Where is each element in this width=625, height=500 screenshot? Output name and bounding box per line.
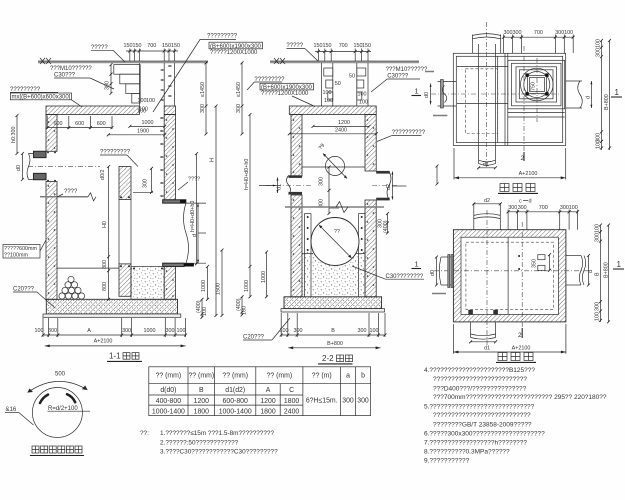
section cut 2 vertical dashed xyxy=(523,46,525,152)
svg-text:300: 300 xyxy=(357,398,369,405)
svg-text:?? (mm): ?? (mm) xyxy=(188,373,214,380)
bottom slab xyxy=(284,297,382,309)
300/400 dims right of channel xyxy=(387,214,389,234)
left wall upper xyxy=(46,115,57,152)
svg-text:300: 300 xyxy=(504,30,513,36)
left pipe xyxy=(441,256,453,258)
svg-text:d1(d2): d1(d2) xyxy=(225,387,245,394)
partition xyxy=(507,237,509,314)
svg-text:d0: d0 xyxy=(430,270,436,276)
svg-text:150: 150 xyxy=(124,43,133,49)
svg-text:≤1450: ≤1450 xyxy=(200,82,206,97)
ground line xyxy=(38,60,208,62)
svg-text:1000: 1000 xyxy=(144,328,156,334)
right pipe xyxy=(566,255,581,257)
right wall inner rebar ticks xyxy=(160,118,164,196)
svg-text:1.???????≤15m ???1.5-8m???????: 1.???????≤15m ???1.5-8m?????????? xyxy=(160,430,274,437)
svg-text:100: 100 xyxy=(324,98,333,104)
svg-text:??:: ??: xyxy=(140,430,149,437)
pipe dots xyxy=(47,152,49,154)
svg-text:(400): (400) xyxy=(383,220,389,233)
svg-text:100: 100 xyxy=(358,92,367,98)
svg-text:1200: 1200 xyxy=(260,398,275,405)
svg-text:6.?????300x300????????????????: 6.?????300x300???????????????????? xyxy=(424,430,545,437)
small cut mark between plans xyxy=(436,166,438,184)
svg-text:50: 50 xyxy=(349,74,355,80)
svg-text:B+800: B+800 xyxy=(604,94,610,110)
svg-text:4.??????????????????????B125??: 4.??????????????????????B125??? xyxy=(424,367,535,374)
svg-text:d1: d1 xyxy=(277,184,283,190)
left wall lower xyxy=(291,195,302,297)
svg-text:1: 1 xyxy=(415,87,419,96)
svg-text:150: 150 xyxy=(323,43,332,49)
right neck stub xyxy=(357,63,368,106)
svg-text:100: 100 xyxy=(35,328,44,334)
svg-text:100: 100 xyxy=(323,90,332,96)
H0 300 800 dim chain xyxy=(108,167,110,300)
svg-text:100: 100 xyxy=(359,100,368,106)
top pipe xyxy=(472,35,474,54)
svg-text:300: 300 xyxy=(595,233,601,242)
svg-text:???????????????????????????: ??????????????????????????? xyxy=(433,412,531,419)
d1 dim xyxy=(479,167,496,169)
svg-text:9.???????????: 9.??????????? xyxy=(424,458,470,465)
N0:300 dim xyxy=(16,116,18,154)
svg-text:?? (mm): ?? (mm) xyxy=(156,373,182,380)
drop chamber concrete fill xyxy=(131,267,164,300)
pebbles xyxy=(59,276,85,299)
svg-text:300: 300 xyxy=(236,104,242,113)
svg-text:d1: d1 xyxy=(484,346,490,352)
left dim chains of 2-2 xyxy=(241,63,243,134)
chamber dashed rect xyxy=(466,242,554,309)
title plan 1 xyxy=(498,184,538,194)
svg-text:300: 300 xyxy=(166,328,175,334)
rebar hooks xyxy=(40,395,48,403)
svg-text:50: 50 xyxy=(335,81,341,87)
svg-text:6?H≤15m.: 6?H≤15m. xyxy=(306,398,338,405)
left pipe xyxy=(29,153,47,155)
svg-text:5.????????????????????????????: 5.????????????????????????????? xyxy=(424,403,535,410)
svg-text:d0/2: d0/2 xyxy=(100,170,106,181)
svg-text:???M10??????: ???M10?????? xyxy=(386,67,428,73)
svg-text:300: 300 xyxy=(560,205,569,211)
svg-text:d2: d2 xyxy=(386,184,392,190)
svg-text:c: c xyxy=(519,199,522,205)
svg-text:150: 150 xyxy=(133,43,142,49)
svg-text:1-1: 1-1 xyxy=(109,352,121,361)
svg-text:B: B xyxy=(331,328,335,334)
svg-text:A+2100: A+2100 xyxy=(94,339,113,345)
svg-text:B: B xyxy=(595,272,601,276)
left pipe xyxy=(438,81,457,83)
ground line xyxy=(270,60,419,62)
ladder detail xyxy=(538,255,545,260)
top pipe xyxy=(473,215,475,230)
svg-text:2400: 2400 xyxy=(335,127,347,133)
svg-text:d2: d2 xyxy=(484,198,490,204)
svg-text:100: 100 xyxy=(596,140,602,149)
svg-text:A: A xyxy=(266,387,271,394)
bottom pipe xyxy=(470,322,472,338)
svg-text:≤1450: ≤1450 xyxy=(236,82,242,97)
svg-text:1200: 1200 xyxy=(338,120,350,126)
left neck stub xyxy=(322,63,333,106)
svg-text:600-800: 600-800 xyxy=(223,398,248,405)
svg-text:1000: 1000 xyxy=(244,280,250,292)
1500 dim lower right xyxy=(221,250,223,316)
partition line xyxy=(497,56,499,142)
svg-text:a: a xyxy=(346,373,350,380)
svg-text:2-2: 2-2 xyxy=(322,354,334,363)
chamber dashed rect xyxy=(465,69,497,134)
outer square hatched walls xyxy=(453,230,566,322)
svg-text:h=H0+d0+h0: h=H0+d0+h0 xyxy=(190,201,196,232)
svg-text:H: H xyxy=(210,158,216,162)
svg-text:150: 150 xyxy=(314,43,323,49)
right pipe top flange xyxy=(163,200,186,203)
ground x-marks xyxy=(40,58,51,64)
bedding xyxy=(281,309,385,312)
neck shaft walls xyxy=(138,63,140,106)
svg-text:C20???: C20??? xyxy=(13,287,35,293)
svg-text:???D400???/???????????????: ???D400???/??????????????? xyxy=(433,385,527,392)
svg-text:d: d xyxy=(586,96,592,99)
title 2-2 section xyxy=(318,354,353,364)
top slab xyxy=(289,106,376,115)
neck steps vertical dim 300x3 xyxy=(110,65,112,94)
shaft frame lines xyxy=(504,53,506,145)
gray invert line xyxy=(40,196,88,198)
svg-text:????????GB/T 23858-2009?????: ????????GB/T 23858-2009????? xyxy=(433,421,532,428)
shaft nested squares xyxy=(508,60,565,109)
svg-text:d: d xyxy=(529,199,532,205)
neck right rebar ticks xyxy=(161,70,165,100)
H dim full height xyxy=(215,106,217,316)
left pipe d1 xyxy=(289,175,303,178)
svg-text:300: 300 xyxy=(294,328,303,334)
right pipe bottom flange xyxy=(163,263,184,266)
lower chamber concrete fill xyxy=(302,252,365,297)
right wall lower xyxy=(164,267,175,300)
right dim chain xyxy=(601,41,603,151)
svg-text:B+800: B+800 xyxy=(604,262,610,278)
svg-text:d1: d1 xyxy=(483,162,489,168)
svg-text:??????????????????????????: ?????????????????????????? xyxy=(433,376,527,383)
outer square double border xyxy=(453,53,565,145)
svg-text:700: 700 xyxy=(534,30,543,36)
svg-text:300: 300 xyxy=(102,260,108,269)
svg-text:2400: 2400 xyxy=(284,408,299,415)
svg-text:1: 1 xyxy=(415,260,419,269)
svg-text:150: 150 xyxy=(362,43,371,49)
400 100 dims at slab right xyxy=(201,299,203,317)
right dim chain xyxy=(600,225,602,322)
svg-text:600: 600 xyxy=(97,121,106,127)
svg-text:?? (m): ?? (m) xyxy=(312,373,332,380)
svg-text:B: B xyxy=(199,387,204,394)
bottom slab xyxy=(46,299,177,314)
upper small circle (drop pipe) xyxy=(325,156,344,175)
center dash-dot vertical xyxy=(486,22,488,168)
svg-text:400-800: 400-800 xyxy=(156,398,181,405)
middle wall bottom hatched xyxy=(119,264,131,296)
svg-text:700: 700 xyxy=(147,43,156,49)
svg-text:8.??????????0.3MPa??????: 8.??????????0.3MPa?????? xyxy=(424,448,510,455)
svg-text:1800: 1800 xyxy=(284,398,299,405)
top slab right part xyxy=(164,106,175,115)
right pipe d2 xyxy=(376,171,390,174)
svg-text:1: 1 xyxy=(615,88,620,97)
svg-text:????: ???? xyxy=(64,189,78,195)
title plan 2 xyxy=(496,353,536,363)
svg-text:1: 1 xyxy=(617,260,622,269)
water line with break xyxy=(285,206,384,208)
middle wall top hatched xyxy=(119,167,131,200)
svg-text:100: 100 xyxy=(564,30,573,36)
svg-text:1000: 1000 xyxy=(142,120,154,126)
svg-text:1000: 1000 xyxy=(201,280,207,292)
tank floor line xyxy=(57,267,119,269)
svg-text:100: 100 xyxy=(595,224,601,233)
svg-text:100: 100 xyxy=(242,306,248,315)
1000 dim lower right xyxy=(207,267,209,300)
svg-text:300: 300 xyxy=(358,328,367,334)
svg-text:2.??????:50????????????: 2.??????:50???????????? xyxy=(160,439,239,446)
svg-text:1900: 1900 xyxy=(137,128,149,134)
svg-text:800: 800 xyxy=(102,282,108,291)
svg-text:d0: d0 xyxy=(424,92,430,98)
svg-text:??100mm: ??100mm xyxy=(4,253,28,259)
title glyphs xyxy=(32,446,82,453)
svg-text:??: ?? xyxy=(334,229,340,235)
svg-text:300: 300 xyxy=(105,81,111,90)
svg-text:d0: d0 xyxy=(16,165,22,171)
svg-text:300: 300 xyxy=(595,302,601,311)
left wall lower xyxy=(46,182,57,300)
svg-text:d: d xyxy=(588,270,594,273)
svg-text:1500: 1500 xyxy=(216,283,222,295)
svg-text:300: 300 xyxy=(200,104,206,113)
svg-text:300: 300 xyxy=(143,179,149,188)
svg-text:300: 300 xyxy=(513,30,522,36)
right wall lower xyxy=(365,200,376,297)
svg-text:?????600mm: ?????600mm xyxy=(4,246,37,252)
svg-text:1800: 1800 xyxy=(260,408,275,415)
svg-text:700: 700 xyxy=(339,43,348,49)
middle wall shaft lines xyxy=(118,200,120,264)
svg-text:b: b xyxy=(361,373,365,380)
svg-text:300: 300 xyxy=(319,177,325,186)
water mark left xyxy=(433,115,447,117)
300/300 dims xyxy=(328,167,330,214)
svg-text:1000-1400: 1000-1400 xyxy=(152,408,185,415)
svg-text:350: 350 xyxy=(532,259,538,268)
svg-text:750: 750 xyxy=(531,82,537,91)
svg-text:?? (mm): ?? (mm) xyxy=(222,373,248,380)
pipe centerline xyxy=(28,165,100,167)
bottom pipe xyxy=(478,146,480,164)
svg-text:100: 100 xyxy=(177,328,186,334)
svg-text:100: 100 xyxy=(146,98,155,104)
svg-text:300: 300 xyxy=(508,205,517,211)
≤1450 + 300 dim chain (neck depth) xyxy=(205,63,207,134)
inner channel walls xyxy=(305,214,366,297)
svg-text:h0:300: h0:300 xyxy=(11,127,17,144)
right pipe body xyxy=(176,202,207,204)
neck left steps xyxy=(114,65,140,75)
svg-text:?????????: ????????? xyxy=(207,34,238,40)
right wall upper xyxy=(164,115,175,200)
svg-text:1800: 1800 xyxy=(194,408,209,415)
svg-text:300: 300 xyxy=(342,398,354,405)
svg-text:300: 300 xyxy=(48,328,57,334)
svg-text:H0: H0 xyxy=(102,221,108,228)
svg-text:B+800: B+800 xyxy=(327,341,343,347)
svg-text:2: 2 xyxy=(518,332,522,339)
d0 dim left of pipe xyxy=(22,154,24,180)
svg-text:500: 500 xyxy=(55,372,66,378)
svg-text:1000-1400: 1000-1400 xyxy=(219,408,252,415)
svg-text:1200: 1200 xyxy=(194,398,209,405)
svg-text:A+2100: A+2100 xyxy=(512,346,531,352)
center lines xyxy=(486,210,488,345)
svg-text:150: 150 xyxy=(162,43,171,49)
svg-text:1000: 1000 xyxy=(261,271,267,283)
svg-text:?????1200X1000: ?????1200X1000 xyxy=(210,50,258,56)
svg-text:150: 150 xyxy=(171,43,180,49)
svg-text:300: 300 xyxy=(122,328,131,334)
svg-text:7.??????????????????h????????: 7.??????????????????h???????? xyxy=(424,440,527,447)
big circle channel xyxy=(311,218,359,266)
right pipe xyxy=(566,80,582,82)
circle xyxy=(32,388,82,438)
top slab left part xyxy=(46,106,139,115)
svg-text:C: C xyxy=(289,387,294,394)
bedding layer xyxy=(43,314,181,317)
svg-text:300: 300 xyxy=(555,30,564,36)
h=H0+d0+h0 dim xyxy=(196,154,198,264)
svg-text:h=H0+d0+h0: h=H0+d0+h0 xyxy=(244,159,250,190)
svg-text:300: 300 xyxy=(518,205,527,211)
svg-text:300: 300 xyxy=(596,48,602,57)
300 dim right of middle wall xyxy=(151,168,153,192)
svg-text:100: 100 xyxy=(596,39,602,48)
d dim on right pipe xyxy=(197,203,199,263)
svg-text:100: 100 xyxy=(595,312,601,321)
title 1-1 section xyxy=(107,352,142,362)
svg-text:????: ???? xyxy=(188,177,200,183)
svg-text:d(d0): d(d0) xyxy=(160,387,176,394)
svg-text:700: 700 xyxy=(539,205,548,211)
bench line xyxy=(302,166,365,168)
svg-text:?????1200X1000: ?????1200X1000 xyxy=(261,91,309,97)
svg-text:3.????C30????????????C30??????: 3.????C30????????????C30????????? xyxy=(160,448,278,455)
svg-text:100: 100 xyxy=(137,109,146,115)
svg-text:600: 600 xyxy=(75,121,84,127)
svg-text:???700mm??????????????????????: ???700mm???????????????????????? 295?? 2… xyxy=(433,394,607,401)
svg-text:?????: ????? xyxy=(91,45,108,51)
wall rebar dots xyxy=(48,119,174,297)
svg-text:???M10??????: ???M10?????? xyxy=(50,66,92,72)
svg-text:A+2100: A+2100 xyxy=(519,171,538,177)
svg-text:100: 100 xyxy=(202,307,208,316)
left wall upper xyxy=(291,115,302,177)
svg-text:?? (mm): ?? (mm) xyxy=(267,373,293,380)
svg-text:A: A xyxy=(87,328,91,334)
right wall upper xyxy=(365,115,376,172)
svg-text:100: 100 xyxy=(370,328,379,334)
svg-text:d: d xyxy=(192,234,198,237)
